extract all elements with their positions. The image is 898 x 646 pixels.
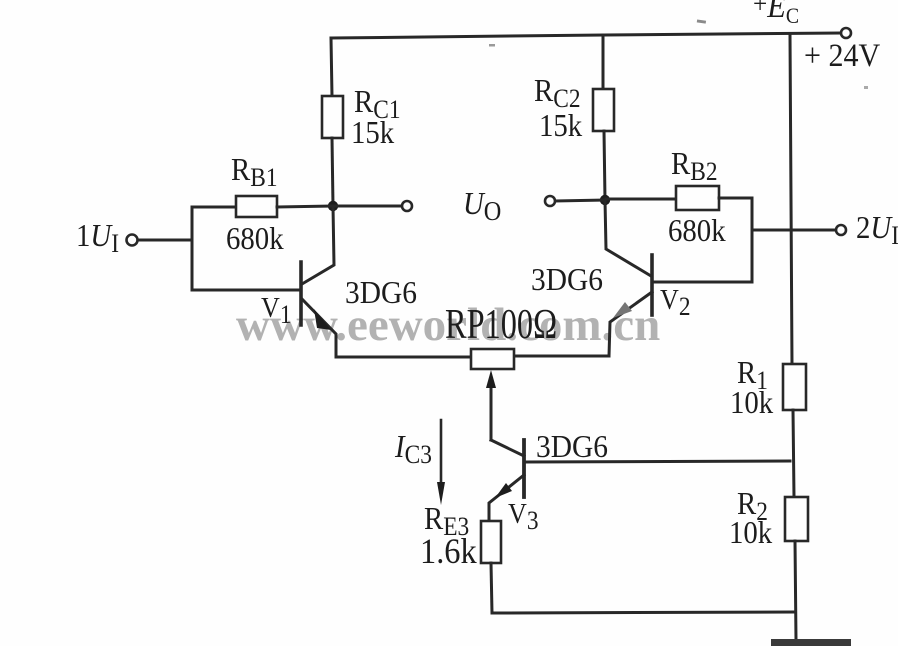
label RB1 xyxy=(231,153,283,185)
wire: RB1 left lead xyxy=(192,206,236,209)
wire: input 1Ui lead xyxy=(138,239,192,242)
wire: R1 to divider node xyxy=(793,410,794,497)
wire: RB2 left lead from node B xyxy=(606,198,676,201)
terminal: 1Ui open circle xyxy=(127,235,138,246)
wire: RB2 right lead and loop to V2 base xyxy=(652,198,752,282)
scan speck near top rail xyxy=(697,19,706,23)
terminal: +Ec open circle xyxy=(841,28,851,38)
resistor RC2 xyxy=(593,89,614,131)
wire: R2 to ground xyxy=(795,541,796,640)
label R1 xyxy=(737,356,771,388)
wire: output 2Ui tap xyxy=(752,229,835,232)
label 3DG6 (V3) xyxy=(536,430,614,462)
value 680k (RB1) xyxy=(226,222,290,254)
label V1 xyxy=(261,294,295,323)
potentiometer RP body xyxy=(471,349,514,369)
scan speck right margin xyxy=(864,86,868,89)
resistor RC1 xyxy=(322,96,343,138)
value 15k (RC2) xyxy=(539,109,587,141)
wire: RC1 to collector node A xyxy=(332,138,333,206)
transistor V2 emitter with arrow xyxy=(609,292,652,356)
wire: emitter rail left to RP xyxy=(336,356,471,359)
wire: V3 collector diagonal xyxy=(491,440,524,456)
value 10k (R1) xyxy=(730,386,778,418)
label RC1 xyxy=(354,85,406,117)
transistor V3 base bar xyxy=(522,440,526,497)
ground symbol xyxy=(771,639,851,646)
current arrow Ic3 xyxy=(440,420,443,492)
transistor V3 emitter with arrow xyxy=(489,475,524,521)
label RE3 xyxy=(424,502,474,534)
wire: RB1 right lead to node A xyxy=(277,206,332,207)
wire: +Ec top supply rail xyxy=(331,33,841,38)
terminal: 2Ui open circle xyxy=(836,225,846,235)
resistor R1 xyxy=(783,364,806,410)
wire: V1 base lead from input loop xyxy=(192,289,300,292)
wire: node A to Uo left terminal xyxy=(333,205,401,208)
label V2 xyxy=(660,286,694,315)
label RB2 xyxy=(671,147,723,179)
wire: Uo right terminal lead xyxy=(555,200,605,201)
label Ic3 xyxy=(395,430,436,462)
resistor R2 xyxy=(785,497,808,541)
value 15k (RC1) xyxy=(351,116,399,148)
value 1.6k (RE3) xyxy=(420,533,483,569)
wire: right supply bus xyxy=(790,35,792,364)
label +Ec xyxy=(753,0,804,24)
node A junction dot (RC1/RB1/V1 collector/output) xyxy=(328,201,338,211)
value 10k (R2) xyxy=(729,516,777,548)
wire: input loop left vertical xyxy=(191,207,194,290)
transistor V1 emitter with arrow xyxy=(302,299,336,357)
label 1Ui input xyxy=(76,219,124,251)
resistor RB2 xyxy=(676,186,719,210)
resistor RB1 xyxy=(236,196,277,217)
scan speck above RC2 xyxy=(489,44,495,47)
wire: RP wiper with up arrow xyxy=(490,378,493,440)
wire: V2 collector lead xyxy=(605,200,651,276)
label V3 xyxy=(508,500,542,529)
wire: bottom return to ground bus xyxy=(492,612,795,613)
wire: RC2 branch from rail xyxy=(602,35,605,89)
transistor V1 base bar xyxy=(299,262,303,325)
label +24V xyxy=(804,40,888,73)
transistor V2 base bar xyxy=(650,255,654,315)
watermark www.eeworld.com.cn xyxy=(236,298,660,352)
wire: RE3 to bottom return xyxy=(491,563,492,613)
label Uo output xyxy=(463,187,506,219)
label RC2 xyxy=(534,74,586,106)
value 680k (RB2) xyxy=(668,214,732,246)
wire: V1 collector lead xyxy=(302,206,334,284)
resistor RE3 xyxy=(481,521,501,563)
wire: emitter rail right to RP xyxy=(514,355,609,358)
wire: V3 base lead to R1/R2 divider xyxy=(524,461,790,462)
terminal: Uo right open circle xyxy=(545,196,555,206)
label RP 100ohm xyxy=(445,304,591,346)
node B junction dot (RC2/RB2/V2 collector/output) xyxy=(600,195,610,205)
terminal: Uo left open circle xyxy=(402,201,412,211)
label 2Ui output xyxy=(856,211,898,243)
wire: RC1 branch from rail to resistor xyxy=(331,38,332,96)
label 3DG6 (V1) xyxy=(345,276,423,308)
label 3DG6 (V2) xyxy=(531,263,609,295)
label R2 xyxy=(737,487,771,519)
wire: RC2 to collector node B xyxy=(604,131,605,200)
